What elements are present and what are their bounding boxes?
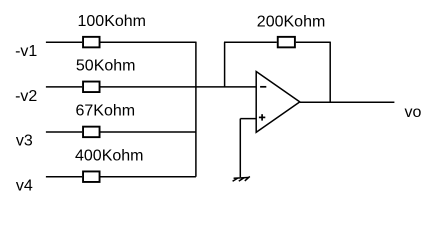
wire feedback top right [296, 41, 330, 43]
wire feedback left vertical [224, 42, 226, 87]
node vo label [405, 104, 422, 121]
svg-text:v3: v3 [16, 133, 33, 150]
value label 200Kohm [257, 14, 326, 31]
resistor R2 [83, 82, 100, 93]
wire op-amp output [300, 101, 395, 103]
wire -v1 to R1 [46, 41, 82, 43]
wire non-inverting input horizontal [240, 118, 256, 120]
op-amp U1 [256, 72, 300, 133]
ground [233, 176, 250, 181]
pin + (non-inverting input marker) [259, 114, 265, 120]
svg-text:200Kohm: 200Kohm [257, 14, 326, 31]
svg-text:-v2: -v2 [15, 88, 37, 105]
wire summing bus vertical [195, 42, 197, 177]
node v3 label [16, 133, 33, 150]
wire R2 to op-amp inverting input [101, 86, 257, 88]
wire v4 to R4 [46, 176, 82, 178]
wire v3 to R3 [46, 131, 82, 133]
resistor Rf [278, 37, 295, 48]
svg-text:50Kohm: 50Kohm [76, 58, 136, 75]
wire -v2 to R2 [46, 86, 82, 88]
wire feedback top left [224, 41, 277, 43]
wire non-inverting to ground vertical [239, 119, 241, 178]
wire R1 to bus [101, 41, 196, 43]
value label 400Kohm [75, 147, 144, 164]
svg-text:v4: v4 [16, 178, 33, 195]
svg-text:67Kohm: 67Kohm [76, 102, 136, 119]
node v4 label [16, 178, 33, 195]
svg-text:400Kohm: 400Kohm [75, 147, 144, 164]
wire R4 to bus [101, 176, 196, 178]
svg-text:100Kohm: 100Kohm [78, 13, 147, 30]
resistor R3 [83, 127, 100, 137]
wire feedback right vertical to output [329, 42, 331, 103]
svg-text:-v1: -v1 [15, 43, 37, 60]
node -v1 label [15, 43, 37, 60]
svg-text:vo: vo [405, 104, 422, 121]
resistor R4 [83, 171, 100, 182]
value label 100Kohm [78, 13, 147, 30]
value label 67Kohm [76, 102, 136, 119]
resistor R1 [83, 37, 100, 48]
node -v2 label [15, 88, 37, 105]
pin - (inverting input marker) [260, 86, 266, 88]
value label 50Kohm [76, 58, 136, 75]
wire R3 to bus [101, 131, 196, 133]
